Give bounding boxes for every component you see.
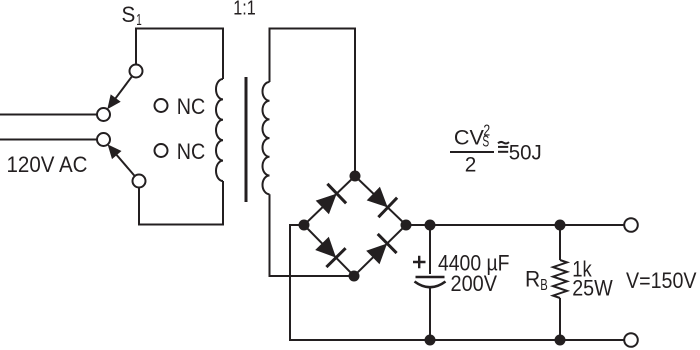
diode D2 top-right (top node to right node) [367,187,397,218]
formula numerator CVs2 [454,122,490,150]
transformer T1 secondary winding [263,82,270,194]
svg-text:1: 1 [136,12,142,29]
resistor RB top lead [559,225,561,260]
wire bridge left node to bottom rail [290,225,624,340]
switch S1 NC contact circle 1 [155,99,168,112]
svg-text:200V: 200V [451,271,498,296]
transformer T1 primary winding [216,79,223,181]
svg-text:V=150V: V=150V [626,268,697,293]
junction dot capacitor top [425,220,436,231]
output terminal top [624,218,638,232]
transformer T1 core [245,77,248,202]
switch S1 pole circle B [133,175,146,188]
resistor RB zigzag body [553,260,567,298]
label S1 [122,2,142,29]
switch S1 blade B (arrow toward common B) [108,144,135,176]
junction dot bridge right node [401,220,412,231]
svg-text:R: R [525,267,540,292]
switch S1 common contact A [97,108,110,121]
svg-text:NC: NC [177,94,206,119]
capacitor C1 top lead [429,225,431,274]
diode D3 bottom-left (left node to bottom node) [315,237,345,267]
svg-text:NC: NC [177,139,206,164]
svg-text:S: S [482,134,489,151]
junction dot resistor top [555,220,566,231]
wire AC input line top [0,114,97,116]
svg-text:25W: 25W [572,276,613,301]
switch S1 pole circle A [130,65,143,78]
diode D1 top-left (left node to top node) [316,184,346,215]
resistor RB bottom lead [559,298,561,340]
svg-text:B: B [540,277,548,294]
wire secondary bottom to bridge bottom node [270,194,355,276]
svg-text:1:1: 1:1 [233,0,256,20]
junction dot bridge bottom node [349,271,360,282]
svg-text:50J: 50J [509,141,542,165]
wire from primary bottom down, left, up to pole B [139,181,223,225]
capacitor C1 curved bottom plate [415,282,446,288]
bridge rectifier diamond wires [304,176,406,276]
svg-text:120V AC: 120V AC [7,152,88,177]
wire from pole A up and right to transformer primary top [136,29,223,80]
junction dot bridge top node [350,171,361,182]
junction dot bridge left node [299,220,310,231]
junction dot resistor bottom [555,335,566,346]
congruent symbol (tilde over equals) [498,142,509,152]
capacitor C1 bottom lead [429,287,431,340]
switch S1 blade A (arrow toward common A) [107,76,132,109]
svg-text:2: 2 [465,153,477,177]
wire top rail from bridge right node to output [406,224,624,226]
diode D4 bottom-right (bottom node to right node) [366,234,396,264]
wire AC input line bottom [0,139,97,141]
label RB [525,267,548,295]
svg-text:S: S [122,2,136,27]
formula fraction bar [450,151,494,153]
svg-text:CV: CV [454,126,485,150]
switch S1 common contact B [97,133,110,146]
capacitor C1 top plate [416,276,445,279]
output terminal bottom [624,333,638,347]
junction dot capacitor bottom [425,335,436,346]
switch S1 NC contact circle 2 [155,144,168,157]
wire secondary top to bridge top node [270,29,356,177]
capacitor plus polarity mark [413,256,426,268]
